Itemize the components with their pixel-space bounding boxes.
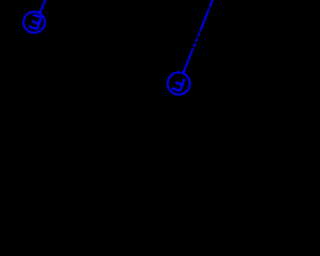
node E label (letter E rotated) <box>29 14 42 29</box>
wire: F edge dashed middle segment <box>192 31 201 53</box>
node F label (letter F rotated) <box>172 76 185 91</box>
wire: edge from node E to top edge (solid) <box>40 0 46 13</box>
wire: F edge upper solid segment <box>200 9 209 31</box>
node E circle <box>24 12 45 33</box>
wire: F edge lower solid segment <box>183 52 192 73</box>
node F circle <box>168 72 190 94</box>
wire: F edge top solid segment above small gap <box>210 0 214 7</box>
